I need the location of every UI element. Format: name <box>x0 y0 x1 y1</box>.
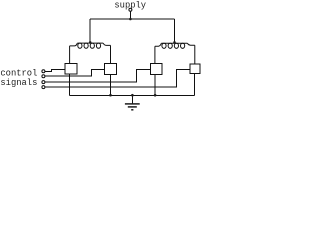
wire control line 1 to Q1 <box>45 69 65 71</box>
switch box Q2 <box>105 63 117 74</box>
node supply terminal circle <box>129 8 132 11</box>
junction dot ground stem on bus <box>131 94 134 97</box>
wire control line 2 to Q2 <box>45 69 105 76</box>
wire Q1 emitter to ground bus <box>69 74 71 96</box>
ground symbol <box>125 104 140 110</box>
svg-text:signals: signals <box>0 78 37 88</box>
switch box Q4 <box>190 64 200 74</box>
control input terminal 1 <box>42 70 45 73</box>
wire ground stem <box>131 95 133 103</box>
inductor L1 left winding <box>70 43 111 64</box>
wire left center-tap drop <box>89 19 91 43</box>
inductor L2 right winding <box>155 43 195 63</box>
wire Q3 emitter to ground bus <box>154 75 156 96</box>
svg-text:supply: supply <box>114 1 146 11</box>
wire control line 4 to Q4 <box>45 69 190 87</box>
wire Q2 emitter to ground bus <box>110 75 112 96</box>
wire ground bus <box>70 94 195 96</box>
wire control line 3 to Q3 <box>45 69 150 82</box>
control input terminal 3 <box>42 81 45 84</box>
switch box Q1 <box>65 64 77 74</box>
control input terminal 4 <box>42 86 45 89</box>
junction dot Q2 on bus <box>109 94 112 97</box>
wire supply rail <box>90 18 174 20</box>
junction dot Q3 on bus <box>154 94 157 97</box>
junction dot right tap <box>173 41 176 44</box>
wire supply stub <box>129 11 131 19</box>
wire right center-tap drop <box>174 19 176 43</box>
wire Q4 emitter to ground bus <box>194 74 196 96</box>
junction dot left tap <box>89 41 92 44</box>
switch box Q3 <box>150 64 162 75</box>
control input terminal 2 <box>42 75 45 78</box>
junction dot supply rail <box>129 18 132 21</box>
